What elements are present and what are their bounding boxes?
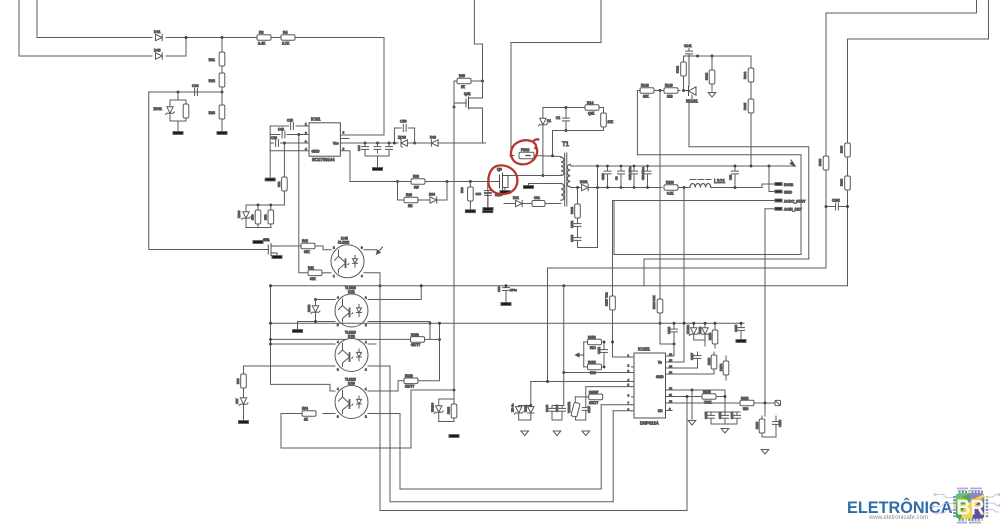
svg-text:1: 1 [305,122,307,126]
svg-text:R156: R156 [708,332,712,340]
wire R51 down to row [246,191,284,205]
svg-text:C44: C44 [357,145,361,151]
wire pin6 VDR row [575,396,589,398]
node zener bottom [314,320,317,323]
node 684 lower rail [683,186,686,189]
resistor R153 [588,364,602,370]
svg-text:D61: D61 [513,196,519,200]
svg-text:C154: C154 [730,411,734,419]
wire IC50 pin1 jog to R168 [368,381,404,391]
resistor R139 [840,176,851,190]
svg-text:GND: GND [312,150,320,154]
svg-text:C35: C35 [475,192,481,196]
wire R49 branch down-left [398,182,405,201]
wire R33 to ground [221,119,223,131]
capacitor C112 [734,166,736,171]
wire pin14 [668,367,698,369]
IC31 pin7 stub [340,138,349,140]
wire 5VSB jog [762,184,775,188]
wire secondary1 bottom to lower rail [570,186,580,189]
svg-text:R1507: R1507 [589,390,599,394]
node 563.75,285.75 [562,284,565,287]
resistor R50 [257,205,259,210]
svg-text:R163: R163 [411,333,419,337]
node 660,90.5 [659,89,662,92]
svg-text:C111 880m: C111 880m [628,165,632,180]
bus wire y501.75 [390,411,613,502]
node C50 legs [393,142,396,145]
node FB left [510,154,513,157]
svg-text:C57: C57 [235,398,239,404]
wire pin3 long [564,372,632,374]
logo pixel text bottom [957,522,981,524]
svg-text:C162: C162 [832,199,840,203]
capacitor C164 [577,218,579,223]
node R38 right [446,180,449,183]
optocoupler IC50 [335,386,368,419]
node 552.5,155.5 [551,154,554,157]
wire sense link x454 [411,389,454,391]
wire R112 right [754,402,775,404]
wire IC45 pin1 to R41 [322,272,331,274]
svg-text:www.eletronicabr.com: www.eletronicabr.com [868,514,928,521]
wire IC52 pin3 to R56 [244,365,336,367]
wire pair bottom bar [519,419,531,421]
svg-text:R166 36K: R166 36K [652,296,656,309]
transistor G31 [263,238,277,256]
node 454,390 [453,389,456,392]
svg-text:Q6: Q6 [497,168,502,172]
capacitor C157 [697,352,699,355]
svg-text:ZC48: ZC48 [398,136,406,140]
resistor R52 [270,205,272,210]
node rail x439 [438,322,441,325]
resistor R51 [283,143,285,177]
wire R cluster left leg [583,342,585,367]
svg-text:C162: C162 [570,220,574,228]
resistor R35 [185,100,187,104]
svg-text:R32: R32 [209,79,215,83]
svg-text:ZD154: ZD154 [431,403,435,412]
wire snubber top rail [543,107,587,109]
wire R3-R4 [271,37,281,39]
wire R153 row [584,366,588,368]
wire Q41 drain drop from top [474,0,482,74]
arrow left gnd [576,353,584,357]
svg-text:C153: C153 [718,411,722,419]
svg-text:G31: G31 [263,238,270,242]
zener ZD48 [400,139,408,147]
resistor R169 [453,399,455,404]
wire IC131 left resistors [637,90,680,92]
svg-text:C60: C60 [497,286,501,292]
svg-text:T1: T1 [562,142,570,148]
wire R32 down to y92 [221,87,223,105]
wire gate drop x454 [453,81,455,107]
node 597.5 lower [596,186,599,189]
node cap bottom [565,129,568,132]
ground below R33 [217,132,227,135]
ground C35 [483,208,493,211]
svg-text:C151: C151 [597,346,601,354]
svg-text:0W: 0W [414,186,419,190]
wire ZD48 to D42 [407,142,431,144]
svg-text:5VSB: 5VSB [784,183,794,187]
ground Q6 source [500,191,510,194]
wire R158 right [716,396,725,398]
svg-text:R158: R158 [703,390,711,394]
svg-text:C46: C46 [287,119,293,123]
wire R31-R32 [221,66,223,73]
zener ZD154 [438,399,440,405]
wire R168 right up [418,323,440,381]
svg-text:R161: R161 [570,206,574,214]
wire zener branch bottom bar [170,114,186,131]
svg-text:756K: 756K [704,400,712,404]
IC31 pin3 wire [281,142,310,144]
node 258,205 [257,204,260,207]
node 712,56 [711,55,714,58]
node 270.5,285.75 [269,284,272,287]
wire VDR bottom join [576,417,586,421]
wire input left vertical B [36,0,38,38]
capacitor C151 [603,342,605,349]
svg-text:C13: C13 [729,174,733,180]
resistor R66 hanging [469,182,471,189]
pad ACDC_STBY [775,199,782,202]
logo traces left [932,494,953,515]
wire right loop outer from top [548,0,977,382]
capacitor C141 [688,55,690,57]
svg-text:R132: R132 [705,72,709,80]
wire snubber bottom rail [553,130,604,132]
bus wire y489 [400,405,601,489]
IC31 pin5 wire down [340,151,390,182]
svg-text:C10 880m: C10 880m [641,166,645,180]
svg-text:0B777: 0B777 [405,385,414,389]
svg-text:ZD52: ZD52 [307,304,311,312]
zener ZD31 [169,100,171,106]
wire ACIN vertical long [764,209,766,405]
svg-text:21B: 21B [667,95,673,99]
svg-text:0B777: 0B777 [411,343,420,347]
node R161 top [576,186,579,189]
node 454,107 [453,106,456,109]
svg-text:R154: R154 [719,363,723,371]
node divider rail [750,165,753,168]
svg-text:ZD36: ZD36 [237,210,241,218]
wire secondary2 bottom out [548,203,561,205]
node C162 right [846,205,849,208]
node 725,396.5 [724,395,727,398]
node 563.75,372.5 [562,371,565,374]
IC151 box [634,353,666,418]
svg-text:IC50: IC50 [348,382,355,386]
svg-text:58C: 58C [590,346,597,350]
wire pin11 [668,396,702,398]
svg-text:4: 4 [337,340,339,344]
svg-text:Q8K: Q8K [588,112,595,116]
annotation red circle FB13 [511,139,538,164]
capacitor C155 [740,323,742,327]
diode D41 [156,34,163,40]
svg-text:2.4K: 2.4K [258,42,266,46]
svg-text:D161: D161 [580,180,588,184]
transistor Q6 mosfet [496,168,508,191]
svg-text:R51: R51 [277,181,281,187]
wire R42 to IC45 pin2 [315,246,331,250]
wire input left vertical A [18,0,20,56]
ground C39 [483,210,493,213]
pad ACIN_DET [775,207,782,210]
wire to FB13 [511,155,514,157]
resistor R136 [818,156,829,170]
ground G31 source [272,256,282,259]
wire pin4 long [531,381,632,383]
svg-text:R133: R133 [666,181,674,185]
wire top rail y37 [37,37,152,39]
svg-text:R33: R33 [209,111,215,115]
ground caps [373,168,383,171]
wire x270 column [271,286,336,391]
svg-text:C50: C50 [400,120,406,124]
svg-text:10K77: 10K77 [589,401,598,405]
svg-text:Vs: Vs [658,361,662,365]
pad 5VSB [775,183,782,186]
svg-text:ZD-0a: ZD-0a [511,403,515,412]
node C151 bottom [603,365,606,368]
resistor R159 [761,416,763,419]
svg-text:1: 1 [365,387,367,391]
wire joiner x186 [185,38,187,57]
ground IC51 pin3 [293,330,303,333]
resistor R158 [702,394,716,400]
resistor R168 [404,378,418,384]
wire pair top bar [519,405,531,407]
node R163 right [438,338,441,341]
wire lower rail [589,187,662,189]
capacitor C158 [775,416,777,421]
wire caps pair top [552,405,564,407]
node 692,390 [691,389,694,392]
inductor L101 [690,184,711,188]
resistor R4 [281,35,295,41]
wire secondary1 top to rail [570,165,795,167]
wire R38 right [425,181,496,183]
svg-text:C152: C152 [704,411,708,419]
capacitor C136 [561,406,563,409]
svg-text:3: 3 [337,415,339,419]
wire R161 chain loop [578,166,598,248]
wire D61 left stub [504,203,516,205]
svg-text:L101: L101 [714,179,725,185]
svg-text:R41: R41 [308,266,314,270]
svg-text:D152: D152 [698,326,702,334]
svg-text:C34: C34 [192,84,198,88]
wire zener branch drop [177,92,179,100]
svg-text:6: 6 [628,393,630,397]
IC31 pin6 Vcc wire [340,142,398,144]
capacitor C38 [276,140,279,147]
node 660 rail [659,322,662,325]
wire D41 to R3 [166,37,257,39]
wire IC52 pin1 stub [368,343,376,345]
svg-text:R49: R49 [406,193,412,197]
resistor R155 [713,352,715,355]
wire pin13 [668,373,714,375]
svg-text:R42: R42 [302,239,308,243]
wire GND drop [769,166,775,192]
wire IC52 pin2 down [368,366,390,502]
svg-text:2: 2 [333,246,335,250]
wire ZD-D link [694,340,705,346]
svg-text:03K: 03K [304,250,311,254]
arrow-ground caps pair [553,431,561,436]
capacitor C34 [195,89,198,96]
wire D40 out [166,55,186,57]
wire lower rail y56 [19,55,152,57]
node 765,403 [764,402,767,405]
wire D42 to Q41 leg [438,142,486,144]
svg-text:4: 4 [337,296,339,300]
svg-text:R134: R134 [743,71,747,79]
svg-text:R66: R66 [460,187,464,193]
wire pin7 riser [601,404,631,406]
svg-text:BR: BR [957,496,985,519]
svg-text:2: 2 [365,368,367,372]
wire R163 left [271,338,411,340]
capacitor C153 [724,412,726,415]
svg-text:2: 2 [365,415,367,419]
wire pin15 Vs riser [668,188,684,363]
svg-text:R140: R140 [665,84,673,88]
wire gate segment [391,181,412,183]
node zener-primary [541,174,544,177]
resistor R142 [640,88,654,94]
varistor VDR151 [574,397,576,403]
wire right loop inner from top [848,0,989,286]
rail arrow end [790,160,795,166]
wire rect bottom outer [644,259,809,286]
resistor R138 [840,143,851,157]
wire IC45 pin4 drop [364,273,380,511]
svg-text:1: 1 [365,296,367,300]
svg-text:R168: R168 [405,374,413,378]
node at 178,92 [177,91,180,94]
svg-text:D1: D1 [547,119,551,123]
capacitor C40 [377,143,379,147]
wire D34 up to node [438,182,448,201]
arrow-ground caps trio [721,429,729,434]
wire pin3 to left rail [270,142,273,144]
node C155 rail [740,322,743,325]
IC31 box [309,123,340,156]
wire C139 link [660,343,674,345]
node rail x270 [269,322,272,325]
wire feedback upper to rect [689,147,809,259]
diode D40 [156,53,163,59]
node 697.5,56 [696,55,699,58]
svg-text:R31: R31 [209,58,215,62]
resistor R42 [301,243,315,249]
svg-text:10K: 10K [643,95,650,99]
svg-text:C38: C38 [271,136,277,140]
wire secondary2 top tap [529,184,562,186]
node 270.5,344 [269,343,272,346]
svg-text:C141: C141 [684,44,692,48]
main rail y323 [271,322,745,324]
arrow-ground 692 [688,421,696,426]
wire C61 to D61 [523,203,532,205]
wire divider x751 [750,56,752,68]
wire sense pair bottom [439,421,454,423]
svg-text:IC151: IC151 [638,347,651,352]
svg-text:R139: R139 [840,178,844,186]
diode D161 [582,184,589,190]
node 270.5,339.4 [269,338,272,341]
node ref IC131 [682,89,685,92]
wire left drop x148 [149,92,267,250]
capacitor C137 [585,387,587,408]
node R65 right [481,80,484,83]
svg-text:0.2K: 0.2K [667,192,674,196]
wire Q41 box lower [453,107,455,390]
wire zener branch top bar [170,99,186,101]
svg-text:2: 2 [628,363,630,367]
IC31 pin1 wire [296,125,309,127]
node at 222,37.5 [221,36,224,39]
resistor R140 [664,88,678,94]
wire R133 to L101 [678,187,690,189]
svg-text:1: 1 [333,274,335,278]
svg-text:1: 1 [365,340,367,344]
zener ZD52 [315,300,317,306]
svg-text:1M: 1M [408,204,413,208]
arrow-ground pair [521,431,529,436]
node C162 left [825,205,828,208]
svg-text:R159: R159 [755,421,759,429]
resistor R131 [683,56,685,62]
node C151 top [603,341,606,344]
wire 692 drop [691,390,693,419]
svg-text:R4: R4 [283,31,288,35]
node cap c [388,142,391,145]
svg-text:C136: C136 [555,404,559,412]
resistor R166 [659,91,661,345]
svg-text:Q41: Q41 [464,92,471,96]
optocoupler IC52 [335,339,368,372]
wire R34 left loop [281,390,411,448]
svg-text:GND: GND [656,375,664,379]
wire R142 left leg [637,91,640,155]
transformer T1 primary winding [561,158,564,176]
svg-text:FB13: FB13 [521,148,529,152]
node ZD152 rail [692,322,695,325]
capacitor C50 loop [394,128,401,143]
resistor R156 [714,323,716,330]
ground left rail [265,178,275,181]
ferrite bead FB13 [519,152,534,159]
wire Q6 source down [504,188,506,191]
wire ACIN_DET [765,208,775,210]
node 735 rail [734,165,737,168]
svg-text:DNP012A: DNP012A [640,421,659,426]
resistor R41 [308,270,322,276]
resistor R112 [740,400,754,406]
wire R41 to x298 [299,135,308,273]
svg-text:ZD152: ZD152 [686,325,690,334]
resistor R38 [411,179,425,185]
